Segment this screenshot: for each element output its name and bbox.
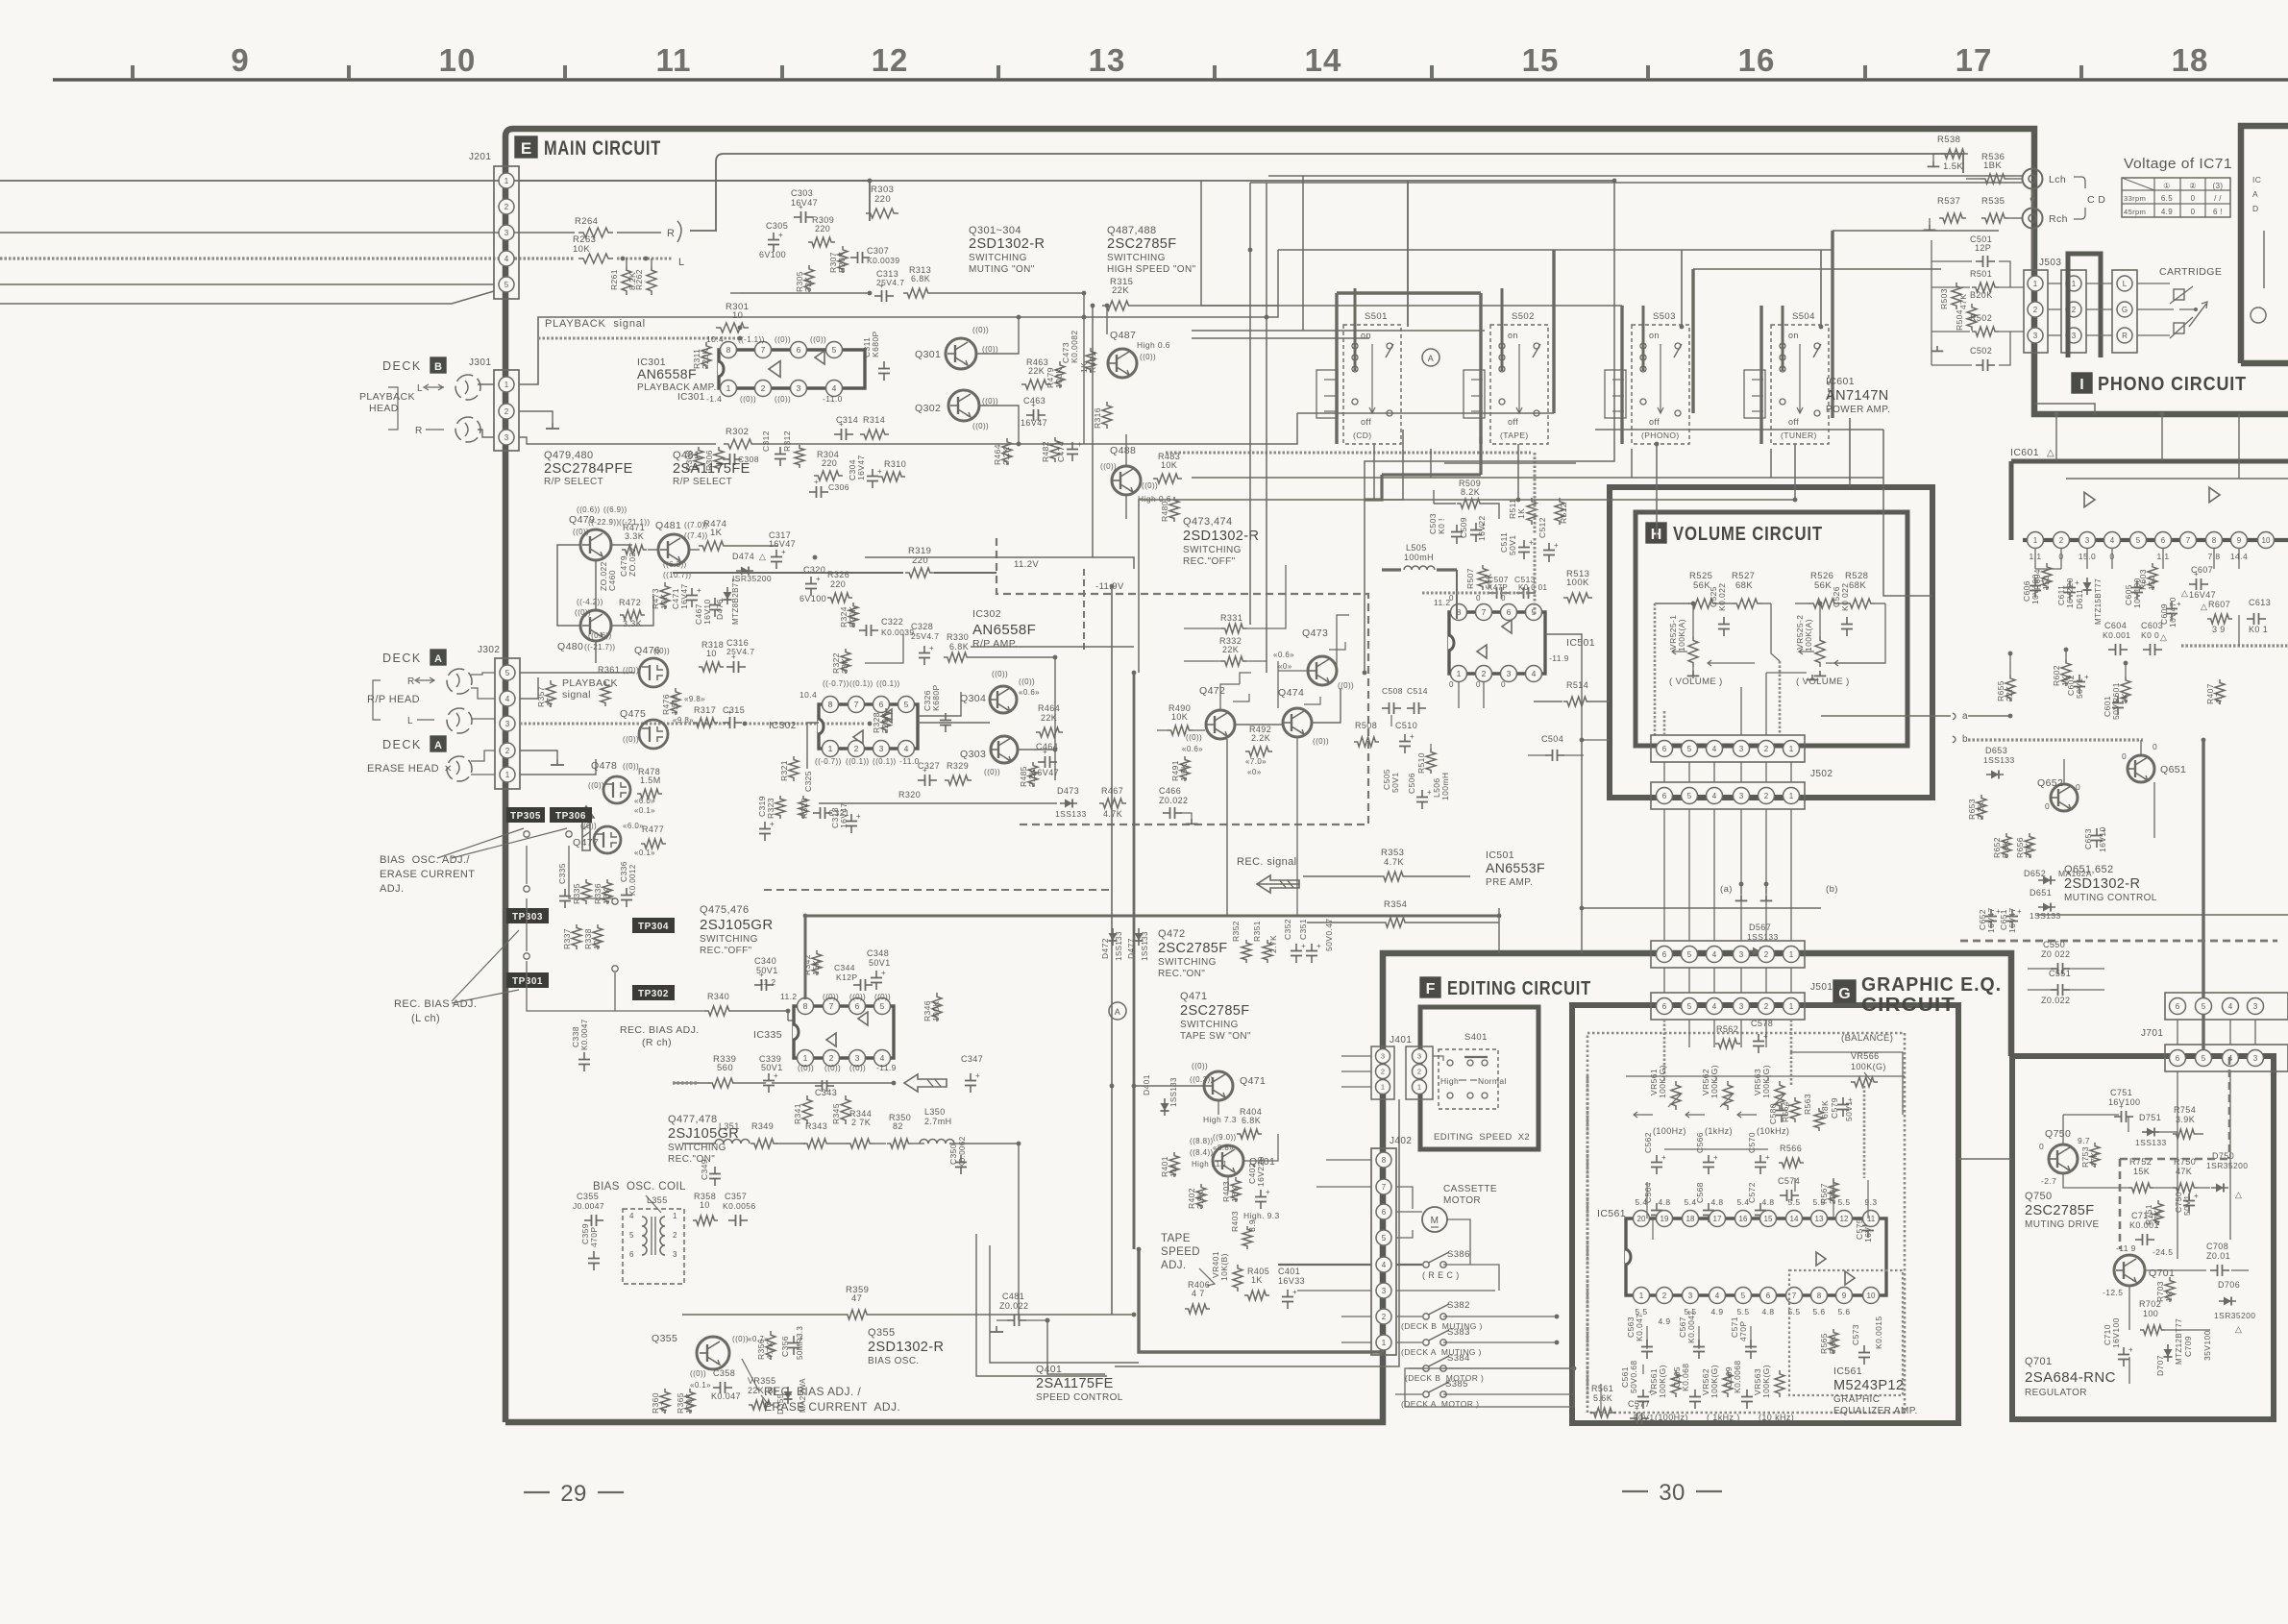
svg-text:10: 10 — [700, 1200, 710, 1210]
svg-text:△: △ — [2181, 588, 2188, 598]
svg-text:A: A — [434, 740, 442, 751]
svg-text:K0.0056: K0.0056 — [723, 1201, 755, 1211]
resistor R464 — [1002, 438, 1012, 465]
transistor Q477 fet — [594, 826, 621, 853]
svg-text:16V100: 16V100 — [2111, 1317, 2121, 1348]
wire switch outputs to volume — [1192, 477, 1883, 479]
svg-text:((0)): ((0)) — [623, 666, 639, 675]
svg-text:2.2K: 2.2K — [1027, 769, 1037, 787]
svg-text:(100Hz): (100Hz) — [1655, 1413, 1688, 1422]
svg-text:C327: C327 — [918, 761, 940, 771]
svg-text:16V100: 16V100 — [2108, 1097, 2140, 1107]
svg-text:Q472: Q472 — [1199, 685, 1225, 697]
fuzzy trace top — [1166, 452, 1531, 455]
wire fuzzy — [745, 723, 865, 726]
svg-text:Voltage of IC71: Voltage of IC71 — [2124, 156, 2232, 172]
svg-text:-11.0: -11.0 — [823, 394, 843, 404]
svg-text:16V47: 16V47 — [839, 802, 849, 828]
svg-text:+: + — [1763, 1032, 1768, 1041]
wires J503 — [2048, 283, 2061, 284]
svg-text:-11.9: -11.9 — [876, 1063, 897, 1072]
svg-text:High. 9.3: High. 9.3 — [1243, 1211, 1280, 1220]
svg-text:+: + — [727, 708, 732, 717]
svg-text:2: 2 — [1764, 950, 1769, 959]
svg-text:2: 2 — [1417, 1068, 1421, 1076]
svg-text:Q475,476: Q475,476 — [700, 904, 750, 916]
svg-text:2: 2 — [1764, 792, 1769, 800]
svg-text:50MR3.3: 50MR3.3 — [796, 1326, 804, 1360]
svg-text:1BK: 1BK — [602, 888, 611, 904]
junction dots 2 — [1091, 304, 1095, 308]
svg-text:Q487,488: Q487,488 — [1107, 225, 1157, 236]
resistor R341 — [802, 1095, 812, 1124]
resistor R485 — [1028, 762, 1038, 787]
svg-text:2.2K: 2.2K — [1001, 447, 1011, 465]
svg-text:High 11.1: High 11.1 — [1192, 1160, 1227, 1169]
svg-text:SWITCHING: SWITCHING — [1180, 1020, 1239, 1030]
transistor Q479 — [580, 529, 611, 560]
svg-text:R514: R514 — [1566, 680, 1588, 690]
svg-text:Q302: Q302 — [915, 403, 941, 414]
svg-text:+: + — [1316, 942, 1321, 950]
resistor R338 — [593, 924, 603, 949]
svg-text:1: 1 — [1457, 669, 1462, 678]
svg-text:6: 6 — [879, 700, 884, 709]
wire tuner vertical — [1820, 250, 1822, 327]
svg-text:Q651,652: Q651,652 — [2064, 864, 2114, 875]
svg-text:4: 4 — [2228, 1002, 2233, 1011]
svg-text:((0)): ((0)) — [732, 1335, 749, 1343]
svg-text:D611: D611 — [2075, 589, 2084, 609]
svg-text:off: off — [1508, 417, 1518, 427]
svg-text:2SC2785F: 2SC2785F — [1158, 941, 1228, 956]
svg-text:DECK: DECK — [382, 652, 422, 665]
resistor R316 — [1102, 402, 1112, 429]
resistor R323 — [775, 796, 785, 819]
transistor Q474 — [1283, 708, 1312, 737]
wire — [0, 283, 494, 285]
transistor Q478 fet — [603, 776, 630, 803]
J501 column wires — [1663, 968, 1665, 993]
svg-text:C D: C D — [2087, 194, 2105, 206]
svg-text:K0.001: K0.001 — [2129, 1220, 2159, 1230]
svg-text:SWITCHING: SWITCHING — [1107, 253, 1166, 263]
test point TP301 — [506, 972, 549, 988]
wire top pair to jacks — [1268, 175, 2022, 177]
svg-text:11.2: 11.2 — [1434, 598, 1451, 607]
svg-text:((0)): ((0)) — [1313, 737, 1329, 746]
test point TP304 — [632, 918, 675, 933]
svg-text:((0.1)): ((0.1)) — [873, 757, 897, 766]
svg-text:MAIN CIRCUIT: MAIN CIRCUIT — [544, 137, 661, 160]
svg-text:15K: 15K — [811, 960, 821, 975]
svg-text:Rch: Rch — [2049, 213, 2068, 225]
svg-text:C356: C356 — [780, 1336, 790, 1357]
wire head to J301 — [478, 383, 494, 385]
svg-text:C303: C303 — [791, 188, 813, 198]
svg-text:CASSETTE: CASSETTE — [1443, 1184, 1497, 1194]
svg-text:C358: C358 — [713, 1368, 735, 1378]
svg-text:+: + — [1529, 538, 1534, 547]
svg-text:11: 11 — [656, 42, 692, 78]
svg-text:1SS133: 1SS133 — [2030, 911, 2061, 921]
svg-text:0: 0 — [2076, 782, 2080, 792]
svg-text:3: 3 — [1507, 669, 1512, 678]
svg-text:6: 6 — [1662, 950, 1667, 959]
svg-text:2SA1175FE: 2SA1175FE — [673, 461, 750, 477]
graphic eq dotted inner box — [1587, 1033, 1905, 1413]
svg-text:100: 100 — [2143, 1309, 2158, 1318]
capacitor C308 — [723, 458, 730, 460]
svg-text:C352: C352 — [1283, 919, 1292, 940]
svg-text:REGULATOR: REGULATOR — [2025, 1388, 2087, 1398]
svg-text:30: 30 — [1659, 1480, 1685, 1506]
svg-text:50V1: 50V1 — [1390, 773, 1400, 793]
svg-text:△: △ — [759, 552, 766, 561]
svg-text:68K: 68K — [1849, 580, 1866, 591]
svg-text:1: 1 — [2072, 280, 2077, 288]
svg-text:-11.0: -11.0 — [899, 756, 920, 766]
svg-text:2: 2 — [829, 1053, 834, 1063]
wire fuzzy rec line — [520, 723, 730, 726]
wire jack down — [2031, 189, 2034, 208]
svg-text:22K: 22K — [1222, 645, 1239, 654]
svg-text:+: + — [975, 1071, 980, 1080]
svg-text:4.8: 4.8 — [1658, 1197, 1670, 1207]
svg-text:R502: R502 — [1970, 313, 1992, 323]
svg-text:C348: C348 — [867, 948, 889, 958]
svg-text:C502: C502 — [1970, 346, 1992, 356]
svg-text:((0)): ((0)) — [653, 647, 670, 655]
resistor R481 — [1086, 348, 1095, 373]
svg-text:Q355: Q355 — [868, 1327, 896, 1339]
svg-text:+: + — [2119, 1102, 2124, 1111]
diode D477 — [1138, 928, 1140, 946]
circle TP contacts — [524, 831, 529, 837]
nested wires bottom mid — [976, 1234, 1107, 1376]
svg-text:S503: S503 — [1653, 311, 1676, 322]
svg-text:R477: R477 — [642, 824, 664, 834]
svg-text:High 7.3: High 7.3 — [1203, 1115, 1237, 1124]
svg-text:12: 12 — [1840, 1215, 1849, 1223]
svg-text:+: + — [2017, 907, 2022, 916]
svg-text:1K: 1K — [710, 528, 723, 538]
svg-text:3: 3 — [504, 229, 509, 237]
svg-text:100K(A): 100K(A) — [1677, 619, 1686, 652]
svg-text:S401: S401 — [1464, 1032, 1488, 1043]
svg-text:1.5K: 1.5K — [1179, 763, 1189, 781]
svg-text:6.8K: 6.8K — [911, 274, 930, 283]
svg-text:J502: J502 — [1810, 769, 1833, 779]
svg-text:4: 4 — [505, 695, 510, 703]
svg-text:10: 10 — [706, 649, 717, 658]
svg-text:REC."OFF": REC."OFF" — [700, 946, 752, 956]
main circuit border — [505, 129, 2288, 1422]
svg-text:7: 7 — [2186, 536, 2191, 545]
wire long 1 — [1084, 250, 1278, 317]
svg-text:TAPE: TAPE — [1161, 1233, 1191, 1244]
svg-text:((0)): ((0)) — [623, 762, 639, 771]
resistor R262 — [647, 266, 656, 295]
svg-text:1.5M: 1.5M — [640, 775, 661, 785]
svg-text:((0)): ((0)) — [1142, 481, 1158, 490]
svg-text:100K(G): 100K(G) — [1658, 1065, 1667, 1098]
resistor R479 — [1055, 361, 1065, 388]
svg-text:C351: C351 — [1298, 919, 1308, 940]
svg-text:IC335: IC335 — [753, 1029, 782, 1041]
svg-text:( R E C ): ( R E C ) — [1422, 1270, 1460, 1280]
resistor R602 — [2061, 659, 2071, 686]
switch S386 — [1423, 1262, 1429, 1267]
svg-text:J503: J503 — [2039, 258, 2061, 268]
svg-text:5.4: 5.4 — [1635, 1197, 1647, 1207]
svg-text:C347: C347 — [961, 1054, 983, 1064]
svg-text:16: 16 — [1738, 42, 1776, 78]
svg-text:BIAS OSC.: BIAS OSC. — [868, 1356, 920, 1366]
svg-text:R262: R262 — [634, 269, 644, 290]
svg-text:signal: signal — [562, 689, 591, 701]
svg-text:((0.3)): ((0.3)) — [1190, 1075, 1214, 1084]
svg-text:C604: C604 — [2104, 621, 2127, 630]
svg-text:47: 47 — [545, 698, 554, 707]
playback head R — [455, 417, 480, 442]
capacitor C311 symbol — [883, 361, 885, 369]
svg-text:0: 0 — [2122, 751, 2127, 761]
svg-text:((0)): ((0)) — [992, 670, 1008, 678]
svg-text:((0)): ((0)) — [1100, 462, 1117, 471]
svg-text:C322: C322 — [881, 617, 903, 627]
svg-text:100K(G): 100K(G) — [1710, 1365, 1719, 1398]
test point TP305 — [506, 807, 545, 823]
resistor R324 — [849, 603, 858, 627]
svg-text:Q481: Q481 — [673, 450, 701, 461]
svg-text:5: 5 — [504, 281, 509, 289]
svg-text:5: 5 — [2202, 1054, 2206, 1063]
svg-text:G: G — [1838, 986, 1850, 1002]
cassette motor — [1422, 1207, 1447, 1232]
svg-text:C570: C570 — [1747, 1132, 1757, 1153]
svg-text:R331: R331 — [1220, 613, 1242, 623]
svg-text:5.6K: 5.6K — [1828, 1336, 1837, 1354]
svg-text:+: + — [774, 1071, 778, 1080]
svg-text:«0.6»: «0.6» — [1182, 745, 1203, 753]
svg-text:K0.022: K0.022 — [1717, 583, 1727, 611]
test point TP306 — [550, 807, 592, 823]
svg-text:M5243P12: M5243P12 — [1833, 1378, 1904, 1393]
resistor R311 — [701, 342, 711, 369]
svg-text:((0)): ((0)) — [573, 528, 589, 536]
svg-text:1BK: 1BK — [1230, 1186, 1240, 1202]
svg-text:D401: D401 — [1142, 1074, 1151, 1095]
svg-text:«7.0»: «7.0» — [1245, 757, 1267, 766]
svg-text:R563: R563 — [1803, 1094, 1812, 1115]
svg-text:5: 5 — [2202, 1002, 2206, 1011]
svg-text:R702: R702 — [2139, 1299, 2161, 1309]
up arrow hatched — [578, 806, 594, 850]
svg-text:J0.0047: J0.0047 — [573, 1201, 604, 1211]
svg-text:(TUNER): (TUNER) — [1781, 431, 1817, 440]
thick wire to editing — [1139, 1249, 1384, 1352]
wire — [0, 291, 494, 304]
svg-text:C578: C578 — [1751, 1019, 1773, 1028]
wires a b to right — [1953, 713, 1956, 720]
svg-text:5: 5 — [880, 1001, 885, 1011]
svg-text:((-4.2)): ((-4.2)) — [577, 598, 603, 606]
svg-text:4.9: 4.9 — [2161, 208, 2173, 216]
svg-text:220K: 220K — [701, 349, 710, 369]
svg-text:0: 0 — [2045, 801, 2050, 811]
svg-text:+: + — [2040, 577, 2045, 585]
svg-text:((0)): ((0)) — [575, 608, 591, 617]
svg-text:1: 1 — [1789, 1002, 1794, 1011]
svg-text:Z0 022: Z0 022 — [2041, 949, 2070, 959]
svg-text:TP306: TP306 — [555, 811, 586, 822]
svg-text:0: 0 — [1501, 680, 1506, 689]
svg-text:4: 4 — [904, 744, 909, 753]
svg-text:16V47: 16V47 — [1021, 418, 1047, 428]
svg-text:MUTING CONTROL: MUTING CONTROL — [2064, 893, 2157, 903]
svg-text:R: R — [2122, 332, 2128, 340]
svg-text:K47P: K47P — [1488, 583, 1508, 592]
svg-text:4.7K: 4.7K — [1103, 809, 1122, 819]
svg-text:a: a — [1962, 711, 1968, 722]
svg-text:C574: C574 — [1778, 1176, 1800, 1186]
svg-text:19: 19 — [1661, 1215, 1669, 1223]
svg-text:+: + — [839, 420, 844, 429]
svg-text:3: 3 — [1739, 792, 1744, 800]
ic601 pin stubs — [2034, 549, 2036, 569]
svg-text:C336: C336 — [619, 861, 628, 882]
svg-text:1SS133: 1SS133 — [1141, 931, 1149, 961]
wire — [740, 292, 870, 294]
svg-text:A: A — [2252, 189, 2258, 199]
svg-text:0: 0 — [2153, 742, 2157, 751]
svg-text:5: 5 — [1741, 1292, 1746, 1300]
svg-text:16V47: 16V47 — [679, 583, 689, 609]
svg-text:2: 2 — [2059, 536, 2064, 545]
svg-text:+: + — [1410, 732, 1415, 741]
svg-text:4.7: 4.7 — [659, 1401, 669, 1414]
svg-text:2SA1175FE: 2SA1175FE — [1036, 1376, 1114, 1391]
svg-text:7: 7 — [1382, 1183, 1387, 1192]
fuzzy trace ic501 — [1422, 592, 1531, 595]
svg-text:SWITCHING: SWITCHING — [700, 934, 758, 945]
svg-text:10.4: 10.4 — [800, 690, 817, 700]
transistor Q487 — [1108, 349, 1137, 378]
wire corner to top right — [690, 154, 1963, 231]
resistor R564 — [1790, 1097, 1800, 1122]
jack Lch — [2023, 169, 2043, 189]
svg-text:«0»: «0» — [1278, 662, 1292, 671]
wire q479 cluster — [595, 560, 597, 610]
svg-text:6: 6 — [1662, 745, 1667, 753]
resistor R511 — [1527, 498, 1537, 525]
resistor R345 — [841, 1095, 850, 1124]
svg-text:C506: C506 — [1407, 773, 1416, 794]
wire — [519, 437, 716, 444]
svg-text:POWER AMP.: POWER AMP. — [1826, 405, 1890, 415]
diode D611 — [2086, 578, 2088, 595]
svg-text:R472: R472 — [619, 598, 641, 607]
svg-text:33K: 33K — [803, 277, 813, 292]
svg-text:3: 3 — [504, 433, 509, 442]
svg-text:7: 7 — [761, 345, 766, 355]
svg-text:100mH: 100mH — [1404, 553, 1434, 562]
resistor R346 — [932, 993, 942, 1021]
transistor Q304 — [990, 686, 1017, 713]
resistor R325 — [799, 796, 808, 819]
svg-text:( VOLUME ): ( VOLUME ) — [1796, 677, 1850, 687]
svg-text:4: 4 — [1712, 745, 1717, 753]
wire — [0, 232, 575, 234]
svg-text:R349: R349 — [751, 1121, 774, 1131]
svg-text:10: 10 — [592, 940, 602, 949]
resistor R510 — [1426, 749, 1436, 774]
svg-text:3: 3 — [855, 1053, 860, 1063]
svg-text:1: 1 — [726, 383, 731, 393]
svg-text:11.2: 11.2 — [780, 992, 798, 1001]
svg-text:AN6558F: AN6558F — [972, 622, 1036, 638]
svg-text:R264: R264 — [575, 216, 598, 227]
svg-text:2SA684-RNC: 2SA684-RNC — [2025, 1369, 2116, 1386]
svg-text:«0»: «0» — [1247, 768, 1262, 776]
svg-text:R325: R325 — [800, 798, 809, 819]
resistor R357 — [546, 680, 555, 707]
wire — [1083, 293, 1085, 444]
svg-text:Normal: Normal — [1478, 1076, 1507, 1086]
svg-text:((0)): ((0)) — [982, 397, 998, 406]
svg-text:K0 022: K0 022 — [1840, 583, 1850, 611]
svg-text:((6.3)): ((6.3)) — [663, 560, 687, 569]
diode D355 — [787, 1387, 789, 1404]
svg-text:C510: C510 — [1395, 721, 1417, 730]
thick rec wire — [805, 916, 1499, 999]
svg-text:R754: R754 — [2174, 1105, 2196, 1115]
svg-text:4: 4 — [880, 1053, 885, 1063]
svg-text:50V0.47: 50V0.47 — [1324, 919, 1334, 951]
ruler bar — [53, 78, 2288, 82]
svg-text:6: 6 — [797, 345, 801, 355]
svg-text:10: 10 — [439, 42, 477, 78]
r/p head lower — [447, 708, 472, 733]
svg-text:50V1: 50V1 — [869, 958, 891, 968]
svg-text:0: 0 — [1449, 594, 1454, 603]
svg-text:R302: R302 — [726, 427, 749, 437]
hatched wire stub — [673, 1081, 698, 1084]
svg-text:Q471: Q471 — [1240, 1075, 1266, 1087]
transistor Q488 — [1112, 466, 1141, 495]
svg-text:△: △ — [2047, 448, 2054, 458]
transistor Q475 fet — [639, 720, 668, 749]
svg-text:+: + — [1713, 1153, 1718, 1162]
svg-text:50V1: 50V1 — [761, 1063, 783, 1072]
svg-text:4.7K: 4.7K — [765, 1341, 775, 1360]
svg-text:5: 5 — [2136, 536, 2141, 545]
resistor R503 — [1952, 283, 1961, 309]
svg-text:470P: 470P — [1738, 1321, 1748, 1341]
svg-text:+: + — [879, 282, 884, 290]
svg-text:8: 8 — [726, 345, 731, 355]
wire — [1444, 462, 1576, 464]
svg-text:MTZ15BT77: MTZ15BT77 — [2094, 578, 2103, 625]
svg-text:2: 2 — [1382, 1313, 1387, 1321]
svg-text:«9.8»: «9.8» — [684, 695, 705, 703]
svg-text:GRAPHIC E.Q.: GRAPHIC E.Q. — [1861, 974, 2002, 996]
svg-text:2: 2 — [761, 383, 766, 393]
svg-text:Q474: Q474 — [1278, 687, 1304, 699]
resistor R360 — [660, 1389, 670, 1414]
dotted feedback box — [1789, 1270, 1903, 1395]
